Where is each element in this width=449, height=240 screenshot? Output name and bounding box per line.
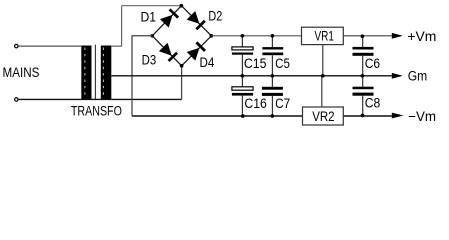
capacitor C8 plates bbox=[353, 87, 374, 90]
capacitor C16 plates (electrolytic) bbox=[232, 87, 253, 90]
wire: top rail to bridge top node bbox=[122, 5, 182, 7]
svg-text:D2: D2 bbox=[208, 8, 222, 23]
transformer core bbox=[94, 45, 96, 100]
capacitor C5 leads bbox=[271, 36, 273, 47]
wire: bridge left node down to -V rail bbox=[132, 36, 152, 116]
junction: C15/C16 on Gm rail bbox=[241, 74, 245, 78]
svg-text:C15: C15 bbox=[244, 56, 267, 71]
transformer TRANSFO secondary winding bbox=[101, 46, 112, 100]
capacitor C6 leads bbox=[362, 36, 364, 47]
wire: -V rail to VR2 bbox=[132, 115, 303, 117]
bridge edge left-top bbox=[152, 6, 181, 36]
wire: VR2 ground pin to Gm rail bbox=[321, 76, 323, 107]
svg-text:C16: C16 bbox=[244, 96, 266, 111]
bridge edge bottom-right bbox=[182, 36, 212, 66]
junction: C15 top on +V rail bbox=[241, 34, 245, 38]
diode D3 (left node to bottom node) bbox=[159, 43, 172, 56]
regulator VR2 box bbox=[303, 107, 344, 125]
junction: regulators common on Gm rail bbox=[321, 74, 325, 78]
bridge edge left-bottom bbox=[152, 36, 181, 66]
wire: mains top terminal to transformer primary bbox=[19, 45, 82, 47]
capacitor C7 leads bbox=[271, 76, 273, 87]
arrow Gm output bbox=[392, 73, 403, 79]
terminal: mains top (circle) bbox=[15, 44, 19, 48]
junction: C5 top on +V rail bbox=[271, 34, 275, 38]
svg-text:−Vm: −Vm bbox=[408, 109, 436, 124]
wire: secondary bottom to bridge bottom node bbox=[111, 98, 181, 100]
node: bridge top (junction dot) bbox=[180, 4, 184, 8]
wire: Gm rail from transformer centre tap to Gm arrow bbox=[111, 75, 392, 77]
diode D4 (bottom node to right node) bbox=[187, 48, 200, 61]
node: bridge bottom (junction dot) bbox=[180, 64, 184, 68]
bridge edge top-right bbox=[181, 6, 211, 36]
svg-text:C7: C7 bbox=[275, 96, 290, 111]
capacitor C15 leads bbox=[241, 36, 243, 47]
terminal: mains bottom (circle) bbox=[15, 98, 19, 102]
diode D2 (top node to right node) bbox=[187, 11, 200, 24]
svg-text:C6: C6 bbox=[365, 56, 380, 71]
wire: secondary top up to bridge AC input bbox=[111, 6, 121, 46]
wire: +V rail from VR1 to +Vm arrow bbox=[343, 35, 392, 37]
svg-text:MAINS: MAINS bbox=[3, 65, 40, 80]
junction: C6 top on +V rail bbox=[361, 34, 365, 38]
svg-text:D4: D4 bbox=[200, 55, 215, 70]
junction: C7 bottom on -V rail bbox=[271, 114, 275, 118]
wire: mains bottom terminal to transformer primary bbox=[19, 98, 82, 100]
svg-text:+Vm: +Vm bbox=[407, 29, 436, 44]
capacitor C15 plates (electrolytic) bbox=[232, 47, 253, 50]
svg-text:TRANSFO: TRANSFO bbox=[71, 104, 122, 119]
svg-text:VR1: VR1 bbox=[315, 28, 334, 43]
capacitor C6 plates bbox=[353, 47, 374, 50]
capacitor C5 plates bbox=[262, 47, 283, 49]
svg-text:C8: C8 bbox=[365, 96, 381, 111]
svg-text:C5: C5 bbox=[275, 56, 290, 71]
capacitor C8 leads bbox=[362, 76, 364, 87]
wire: -V rail from VR2 to -Vm arrow bbox=[343, 115, 392, 117]
junction: C8 bottom on -V rail bbox=[361, 114, 365, 118]
svg-text:VR2: VR2 bbox=[312, 109, 334, 124]
node: bridge right (junction dot) bbox=[210, 34, 214, 38]
svg-text:D3: D3 bbox=[142, 53, 157, 68]
transformer TRANSFO primary winding bbox=[81, 46, 91, 100]
diode D1 (left node to top node) bbox=[160, 15, 173, 28]
arrow +Vm output bbox=[392, 33, 403, 39]
junction: C16 bottom on -V rail bbox=[241, 114, 245, 118]
capacitor C7 plates bbox=[262, 87, 283, 90]
node: bridge left (junction dot) bbox=[150, 34, 154, 38]
wire: VR1 ground pin to Gm rail bbox=[322, 45, 324, 76]
arrow -Vm output bbox=[392, 113, 404, 119]
regulator VR1 box bbox=[302, 27, 344, 44]
wire: under transformer (bottom) bbox=[81, 98, 111, 100]
svg-text:D1: D1 bbox=[141, 10, 157, 25]
junction: C6/C8 on Gm rail bbox=[361, 74, 365, 78]
wire: +V rail from bridge right node to VR1 bbox=[211, 35, 301, 37]
junction: C5/C7 on Gm rail bbox=[271, 74, 275, 78]
svg-text:Gm: Gm bbox=[408, 69, 428, 84]
capacitor C16 leads bbox=[241, 76, 243, 87]
